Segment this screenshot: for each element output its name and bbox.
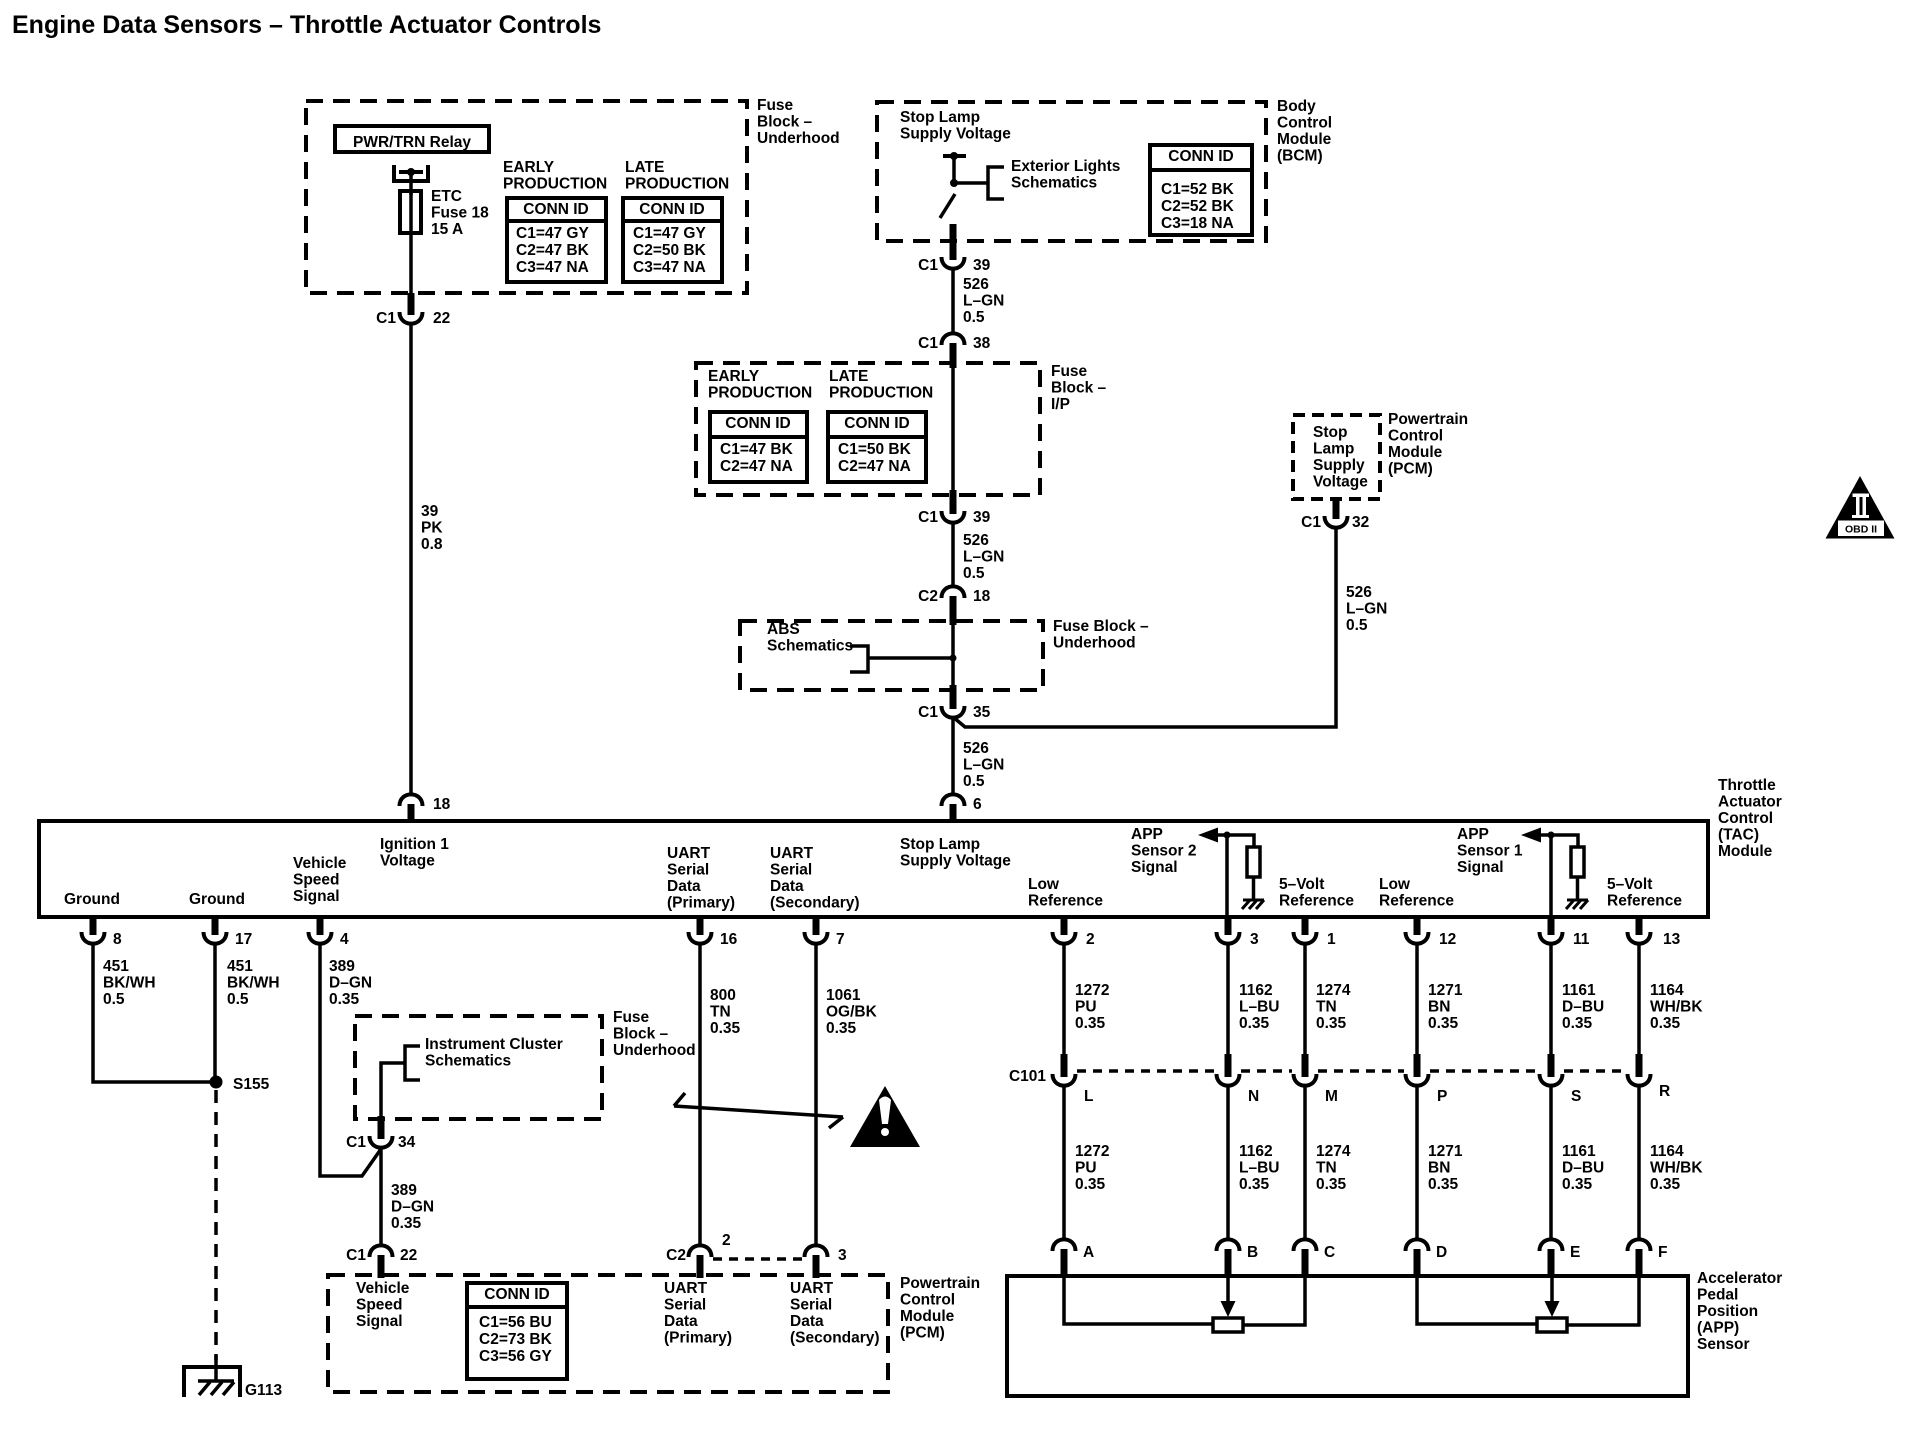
connector B (APP sensor) [1217, 1239, 1240, 1251]
connector pin 4 (TAC bottom) [317, 917, 324, 935]
svg-text:(Secondary): (Secondary) [790, 1330, 880, 1347]
connector C101 terminal N [1225, 1054, 1232, 1077]
svg-text:A: A [1083, 1244, 1094, 1261]
svg-text:Underhood: Underhood [757, 130, 840, 147]
connector E (APP sensor) [1540, 1239, 1563, 1251]
connector pin 13 (TAC bottom) [1636, 917, 1643, 935]
svg-text:3: 3 [838, 1247, 847, 1264]
svg-text:11: 11 [1573, 931, 1590, 948]
svg-text:L–GN: L–GN [963, 549, 1004, 566]
svg-text:Serial: Serial [770, 862, 812, 879]
svg-text:PRODUCTION: PRODUCTION [625, 176, 729, 193]
svg-text:CONN ID: CONN ID [844, 415, 909, 432]
bracket to instrument cluster [405, 1046, 420, 1080]
svg-text:C1=47 GY: C1=47 GY [633, 225, 706, 242]
svg-text:Serial: Serial [790, 1297, 832, 1314]
svg-text:18: 18 [433, 796, 451, 813]
svg-text:Schematics: Schematics [425, 1053, 511, 1070]
svg-text:APP: APP [1131, 826, 1163, 843]
svg-text:Low: Low [1379, 876, 1411, 893]
svg-text:0.8: 0.8 [421, 536, 443, 553]
svg-text:Supply Voltage: Supply Voltage [900, 126, 1011, 143]
svg-text:APP: APP [1457, 826, 1489, 843]
connector C101 terminal M [1302, 1054, 1309, 1077]
svg-text:0.35: 0.35 [329, 991, 360, 1008]
svg-text:Data: Data [770, 878, 804, 895]
wiper arrow (pin E) [1550, 1276, 1554, 1303]
connector C101 terminal L [1061, 1054, 1068, 1077]
svg-text:0.5: 0.5 [227, 991, 249, 1008]
svg-text:(TAC): (TAC) [1718, 827, 1759, 844]
wire 526 L-GN 0.5 (BCM to I/P) [951, 268, 955, 334]
svg-text:M: M [1325, 1088, 1338, 1105]
svg-text:WH/BK: WH/BK [1650, 999, 1703, 1016]
svg-text:Reference: Reference [1028, 893, 1103, 910]
callout arrow [674, 1106, 843, 1117]
svg-text:Fuse Block –: Fuse Block – [1053, 618, 1149, 635]
svg-text:0.5: 0.5 [963, 773, 985, 790]
svg-text:Serial: Serial [664, 1297, 706, 1314]
svg-text:C1: C1 [376, 310, 396, 327]
connector C2 18 (fuse block underhood) [942, 586, 965, 598]
svg-text:Module: Module [1388, 444, 1443, 461]
svg-text:PU: PU [1075, 1160, 1097, 1177]
svg-text:C1: C1 [918, 257, 938, 274]
svg-text:1272: 1272 [1075, 1143, 1109, 1160]
svg-text:PWR/TRN Relay: PWR/TRN Relay [353, 134, 471, 151]
wire 526 L-GN 0.5 (to TAC pin 6) [951, 717, 955, 795]
wire C101 to APP connector (col R) [1637, 1085, 1641, 1240]
svg-text:Block –: Block – [613, 1026, 669, 1043]
connector C1 32 (PCM) [1333, 499, 1340, 519]
svg-text:I/P: I/P [1051, 396, 1070, 413]
svg-text:1162: 1162 [1239, 982, 1273, 999]
wire 451 BK/WH 0.5 (pin 17) [213, 943, 217, 1082]
svg-text:C2=47 BK: C2=47 BK [516, 242, 590, 259]
connector C2 2 (PCM) [689, 1245, 712, 1257]
svg-text:526: 526 [1346, 584, 1372, 601]
svg-text:Reference: Reference [1279, 893, 1354, 910]
svg-text:22: 22 [433, 310, 450, 327]
svg-text:EARLY: EARLY [708, 368, 760, 385]
wire: switch to BCM pin [950, 224, 957, 260]
wire C101 to APP connector (col L) [1062, 1085, 1066, 1240]
svg-text:6: 6 [973, 796, 982, 813]
svg-text:LATE: LATE [625, 159, 664, 176]
svg-text:39: 39 [421, 503, 439, 520]
connector pin 16 (TAC bottom) [697, 917, 704, 935]
svg-text:389: 389 [329, 958, 355, 975]
svg-text:0.35: 0.35 [1428, 1176, 1459, 1193]
svg-text:UART: UART [664, 1280, 708, 1297]
svg-text:PU: PU [1075, 999, 1097, 1016]
wire through ABS fuse block [951, 621, 955, 685]
connector pin 2 (TAC bottom) [1061, 917, 1068, 935]
wire APP sensor 2 element [1064, 1276, 1213, 1324]
svg-text:1: 1 [1327, 931, 1336, 948]
wire (dashed) C2-2 to 3 [713, 1257, 804, 1261]
svg-text:C: C [1324, 1244, 1335, 1261]
svg-text:BN: BN [1428, 1160, 1450, 1177]
svg-text:Data: Data [790, 1313, 824, 1330]
svg-text:1274: 1274 [1316, 982, 1351, 999]
wire TAC pin to C101 (col R) [1637, 943, 1641, 1054]
wire resistor to ground [1252, 877, 1256, 900]
svg-text:0.35: 0.35 [1316, 1176, 1347, 1193]
svg-text:22: 22 [400, 1247, 417, 1264]
svg-text:C101: C101 [1009, 1068, 1046, 1085]
svg-text:5–Volt: 5–Volt [1279, 876, 1324, 893]
svg-text:Stop Lamp: Stop Lamp [900, 109, 980, 126]
svg-text:32: 32 [1352, 514, 1369, 531]
svg-text:WH/BK: WH/BK [1650, 1160, 1703, 1177]
svg-text:(APP): (APP) [1697, 1320, 1739, 1337]
svg-text:Control: Control [1718, 810, 1773, 827]
module box: Accelerator Pedal Position (APP) Sensor [1007, 1276, 1688, 1396]
connector D (APP sensor) [1406, 1239, 1429, 1251]
svg-text:Sensor 2: Sensor 2 [1131, 843, 1196, 860]
svg-text:Exterior Lights: Exterior Lights [1011, 158, 1120, 175]
svg-text:1164: 1164 [1650, 1143, 1684, 1160]
svg-text:S: S [1571, 1088, 1581, 1105]
svg-text:Powertrain: Powertrain [900, 1275, 980, 1292]
svg-text:800: 800 [710, 987, 736, 1004]
svg-text:0.35: 0.35 [710, 1020, 741, 1037]
wiper arrow (pin B) [1226, 1276, 1230, 1303]
svg-text:0.35: 0.35 [391, 1215, 422, 1232]
svg-text:LATE: LATE [829, 368, 868, 385]
wire pin 11 internal [1549, 835, 1553, 917]
connector C1 35 (ABS block bottom) [950, 685, 957, 709]
svg-text:C1=47 BK: C1=47 BK [720, 441, 794, 458]
svg-text:526: 526 [963, 276, 989, 293]
connector C1 39 (BCM) [942, 257, 965, 269]
svg-text:Instrument Cluster: Instrument Cluster [425, 1036, 563, 1053]
svg-text:C3=47 NA: C3=47 NA [516, 259, 589, 276]
connector C1 22 (PCM) [370, 1245, 393, 1257]
svg-text:Signal: Signal [356, 1313, 403, 1330]
svg-text:Ground: Ground [64, 891, 120, 908]
svg-text:S155: S155 [233, 1076, 270, 1093]
svg-text:0.35: 0.35 [1650, 1015, 1681, 1032]
svg-text:Voltage: Voltage [380, 853, 435, 870]
svg-text:PRODUCTION: PRODUCTION [829, 385, 933, 402]
potentiometer (APP sensor 1) [1537, 1318, 1567, 1332]
svg-text:CONN ID: CONN ID [725, 415, 790, 432]
svg-text:Module: Module [1277, 131, 1332, 148]
wire ABS tap [868, 656, 953, 660]
svg-text:Fuse 18: Fuse 18 [431, 205, 489, 222]
connector pin 1 (TAC bottom) [1302, 917, 1309, 935]
svg-text:7: 7 [836, 931, 845, 948]
bracket to ABS schematics [850, 646, 868, 672]
svg-text:L–BU: L–BU [1239, 1160, 1279, 1177]
wire resistor to ground [1576, 877, 1580, 900]
svg-text:1272: 1272 [1075, 982, 1109, 999]
svg-text:1271: 1271 [1428, 982, 1463, 999]
svg-text:1061: 1061 [826, 987, 861, 1004]
svg-text:P: P [1437, 1088, 1447, 1105]
svg-text:Module: Module [900, 1308, 955, 1325]
svg-text:PRODUCTION: PRODUCTION [708, 385, 812, 402]
svg-text:Module: Module [1718, 843, 1773, 860]
wire relay to fuse [409, 172, 413, 195]
svg-text:38: 38 [973, 335, 991, 352]
svg-text:Vehicle: Vehicle [356, 1280, 410, 1297]
wire: APP sensor 2 signal (TAC internal) [1208, 835, 1254, 847]
svg-text:OBD II: OBD II [1845, 524, 1877, 536]
svg-text:12: 12 [1439, 931, 1456, 948]
svg-text:Pedal: Pedal [1697, 1287, 1738, 1304]
svg-text:389: 389 [391, 1182, 417, 1199]
svg-text:C1: C1 [346, 1134, 366, 1151]
wire C101 to APP connector (col M) [1303, 1085, 1307, 1240]
svg-text:1161: 1161 [1562, 1143, 1596, 1160]
svg-text:1164: 1164 [1650, 982, 1684, 999]
svg-text:Underhood: Underhood [613, 1042, 696, 1059]
svg-text:TN: TN [1316, 999, 1337, 1016]
connector C1 22 (fuse block underhood) [408, 293, 415, 315]
svg-text:1271: 1271 [1428, 1143, 1463, 1160]
connector pin 7 (TAC bottom) [813, 917, 820, 935]
connector A (APP sensor) [1053, 1239, 1076, 1251]
svg-text:Accelerator: Accelerator [1697, 1270, 1782, 1287]
svg-text:L–GN: L–GN [963, 293, 1004, 310]
wire (dashed) S155 to G113 [214, 1090, 218, 1360]
svg-text:D–GN: D–GN [391, 1199, 434, 1216]
svg-text:Sensor: Sensor [1697, 1336, 1750, 1353]
CONN ID table (early production, I/P) [710, 412, 807, 482]
svg-text:C2: C2 [666, 1247, 686, 1264]
svg-text:Body: Body [1277, 98, 1316, 115]
wire C101 to APP connector (col N) [1226, 1085, 1230, 1240]
connector C1 34 [378, 1116, 385, 1139]
svg-text:D: D [1436, 1244, 1447, 1261]
svg-text:5–Volt: 5–Volt [1607, 876, 1652, 893]
connector C1 38 (fuse block I/P) [942, 333, 965, 345]
svg-text:Ground: Ground [189, 891, 245, 908]
svg-text:PK: PK [421, 520, 443, 537]
connector C1 39 (I/P bottom) [950, 490, 957, 514]
wire 526 L-GN 0.5 (I/P to underhood) [951, 522, 955, 587]
svg-text:Signal: Signal [1457, 859, 1504, 876]
svg-text:Control: Control [1277, 115, 1332, 132]
svg-text:0.35: 0.35 [1650, 1176, 1681, 1193]
wire C101 to APP connector (col P) [1415, 1085, 1419, 1240]
svg-text:(Primary): (Primary) [667, 895, 735, 912]
svg-text:EARLY: EARLY [503, 159, 555, 176]
svg-text:L: L [1084, 1088, 1093, 1105]
svg-text:Block –: Block – [757, 114, 813, 131]
wire TAC pin to C101 (col S) [1549, 943, 1553, 1054]
svg-text:Powertrain: Powertrain [1388, 411, 1468, 428]
svg-text:Speed: Speed [293, 872, 340, 889]
svg-text:B: B [1247, 1244, 1258, 1261]
svg-text:BK/WH: BK/WH [103, 975, 156, 992]
svg-text:2: 2 [1086, 931, 1095, 948]
svg-text:C1: C1 [346, 1247, 366, 1264]
wire potentiometer to pin C [1243, 1276, 1305, 1325]
svg-text:Fuse: Fuse [757, 97, 794, 114]
svg-text:0.35: 0.35 [1316, 1015, 1347, 1032]
connector pin 8 (TAC bottom) [90, 917, 97, 935]
wire (dashed) C101 bulkhead line [1077, 1069, 1215, 1073]
connector C101 terminal P [1414, 1054, 1421, 1077]
svg-text:Lamp: Lamp [1313, 441, 1354, 458]
svg-text:0.5: 0.5 [963, 309, 985, 326]
svg-text:Supply: Supply [1313, 457, 1365, 474]
svg-text:C1: C1 [918, 509, 938, 526]
svg-text:Voltage: Voltage [1313, 474, 1368, 491]
svg-text:451: 451 [103, 958, 129, 975]
svg-text:C1=50 BK: C1=50 BK [838, 441, 912, 458]
wire 526 L-GN 0.5 (PCM branch) [953, 527, 1336, 727]
svg-text:C1=47 GY: C1=47 GY [516, 225, 589, 242]
svg-text:1274: 1274 [1316, 1143, 1351, 1160]
wire 389 D-GN 0.35 (to PCM) [379, 1147, 383, 1246]
svg-text:Fuse: Fuse [613, 1009, 650, 1026]
svg-text:Low: Low [1028, 876, 1060, 893]
svg-text:D–GN: D–GN [329, 975, 372, 992]
wire instrument cluster tap [381, 1063, 405, 1116]
wire 389 D-GN 0.35 (pin 4 VSS) [320, 943, 381, 1176]
svg-text:(Secondary): (Secondary) [770, 895, 860, 912]
svg-text:Reference: Reference [1607, 893, 1682, 910]
svg-text:N: N [1248, 1088, 1259, 1105]
svg-text:0.5: 0.5 [103, 991, 125, 1008]
svg-text:16: 16 [720, 931, 738, 948]
wire APP sensor 1 element [1417, 1276, 1537, 1324]
svg-text:0.5: 0.5 [1346, 617, 1368, 634]
resistor (APP sensor 2 pull) [1247, 847, 1260, 877]
svg-text:C3=56 GY: C3=56 GY [479, 1348, 552, 1365]
module box: Powertrain Control Module (PCM) [328, 1275, 888, 1392]
svg-text:F: F [1658, 1244, 1667, 1261]
svg-text:ABS: ABS [767, 621, 800, 638]
svg-text:Engine Data Sensors – Throttle: Engine Data Sensors – Throttle Actuator … [12, 11, 601, 39]
connector pin 3 (TAC bottom) [1225, 917, 1232, 935]
svg-text:Control: Control [1388, 428, 1443, 445]
svg-text:L–BU: L–BU [1239, 999, 1279, 1016]
connector 3 (PCM) [805, 1245, 828, 1257]
svg-text:Serial: Serial [667, 862, 709, 879]
svg-text:Fuse: Fuse [1051, 363, 1088, 380]
svg-text:15 A: 15 A [431, 221, 463, 238]
svg-text:C2=47 NA: C2=47 NA [838, 458, 911, 475]
wire potentiometer to pin F [1567, 1276, 1639, 1325]
potentiometer (APP sensor 2) [1213, 1318, 1243, 1332]
wire 1061 OG/BK 0.35 (pin 7) [814, 943, 818, 1246]
svg-text:35: 35 [973, 704, 991, 721]
svg-text:C2: C2 [918, 588, 938, 605]
module box: Fuse Block - I/P [696, 363, 1040, 495]
svg-text:1161: 1161 [1562, 982, 1596, 999]
svg-text:C2=50 BK: C2=50 BK [633, 242, 707, 259]
fuse ETC Fuse 18 15 A [409, 191, 413, 293]
module box: PCM stop lamp supply [1293, 415, 1380, 499]
svg-text:Ignition 1: Ignition 1 [380, 836, 449, 853]
connector C101 terminal S [1548, 1054, 1555, 1077]
svg-text:C3=18 NA: C3=18 NA [1161, 215, 1234, 232]
svg-text:Speed: Speed [356, 1297, 403, 1314]
svg-text:Signal: Signal [293, 888, 340, 905]
svg-text:39: 39 [973, 257, 991, 274]
wire pin 3 internal [1225, 835, 1229, 917]
svg-text:TN: TN [1316, 1160, 1337, 1177]
connector pin 11 (TAC bottom) [1548, 917, 1555, 935]
relay PWR/TRN contact [394, 165, 428, 181]
svg-text:Vehicle: Vehicle [293, 855, 347, 872]
wire C101 to APP connector (col S) [1549, 1085, 1553, 1240]
svg-text:(PCM): (PCM) [900, 1325, 945, 1342]
wire through I/P fuse block [951, 366, 955, 490]
svg-text:C2=47 NA: C2=47 NA [720, 458, 793, 475]
bracket to Exterior Lights Schematics [988, 167, 1004, 199]
svg-text:C1: C1 [918, 335, 938, 352]
svg-text:ETC: ETC [431, 188, 462, 205]
module box: Fuse Block - Underhood (ABS) [740, 621, 1043, 690]
svg-text:C1=56 BU: C1=56 BU [479, 1314, 552, 1331]
connector pin 18 (TAC top) [400, 794, 423, 806]
svg-text:0.35: 0.35 [826, 1020, 857, 1037]
svg-text:UART: UART [770, 845, 814, 862]
svg-text:Data: Data [667, 878, 701, 895]
svg-text:CONN ID: CONN ID [484, 1286, 549, 1303]
svg-text:Schematics: Schematics [1011, 175, 1097, 192]
svg-text:Underhood: Underhood [1053, 635, 1136, 652]
symbol: warning triangle [850, 1086, 920, 1147]
svg-text:Schematics: Schematics [767, 638, 853, 655]
ground G113 [214, 1355, 218, 1382]
svg-text:0.35: 0.35 [1075, 1015, 1106, 1032]
svg-text:CONN ID: CONN ID [639, 201, 704, 218]
CONN ID table (BCM) [1150, 145, 1252, 235]
svg-text:Signal: Signal [1131, 859, 1178, 876]
module box: Throttle Actuator Control (TAC) [39, 821, 1708, 917]
wire TAC pin to C101 (col M) [1303, 943, 1307, 1054]
CONN ID table (late production, underhood) [623, 198, 722, 282]
svg-text:0.35: 0.35 [1428, 1015, 1459, 1032]
svg-text:R: R [1659, 1083, 1670, 1100]
svg-text:2: 2 [722, 1232, 731, 1249]
CONN ID table (PCM) [467, 1283, 567, 1379]
wire TAC pin to C101 (col N) [1226, 943, 1230, 1054]
module box: Body Control Module (BCM) [877, 102, 1266, 241]
svg-text:526: 526 [963, 532, 989, 549]
svg-text:Block –: Block – [1051, 380, 1107, 397]
svg-text:BK/WH: BK/WH [227, 975, 280, 992]
svg-text:451: 451 [227, 958, 253, 975]
CONN ID table (late production, I/P) [828, 412, 926, 482]
svg-text:CONN ID: CONN ID [523, 201, 588, 218]
svg-text:D–BU: D–BU [1562, 999, 1604, 1016]
svg-text:Supply Voltage: Supply Voltage [900, 853, 1011, 870]
wire 451 BK/WH 0.5 (pin 8) [93, 943, 216, 1082]
svg-text:0.35: 0.35 [1239, 1015, 1270, 1032]
connector pin 17 (TAC bottom) [212, 917, 219, 935]
svg-text:1162: 1162 [1239, 1143, 1273, 1160]
connector pin 6 (TAC top) [942, 794, 965, 806]
svg-text:Data: Data [664, 1313, 698, 1330]
svg-text:C2=73 BK: C2=73 BK [479, 1331, 553, 1348]
svg-text:Reference: Reference [1379, 893, 1454, 910]
svg-text:0.35: 0.35 [1075, 1176, 1106, 1193]
svg-text:D–BU: D–BU [1562, 1160, 1604, 1177]
svg-text:Throttle: Throttle [1718, 777, 1776, 794]
connector F (APP sensor) [1628, 1239, 1651, 1251]
wire TAC pin to C101 (col P) [1415, 943, 1419, 1054]
svg-text:Control: Control [900, 1292, 955, 1309]
